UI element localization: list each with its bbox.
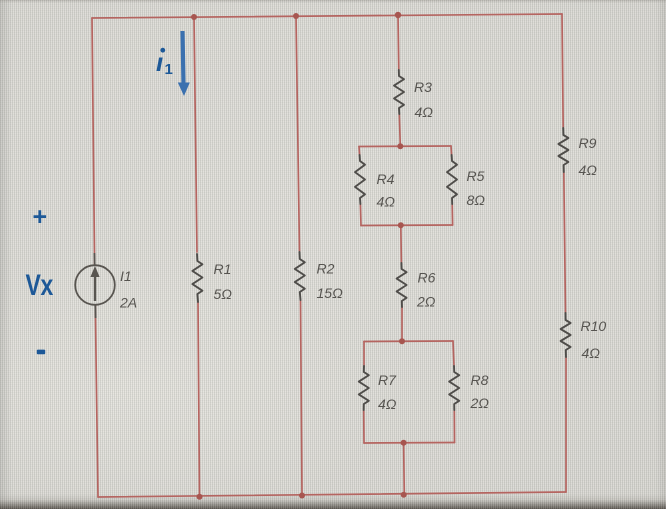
wire box R4R5 left edge lower — [359, 204, 362, 226]
node bottom middle junction — [401, 492, 407, 498]
wire box R7R8 bottom edge — [364, 442, 455, 445]
resistor R3 — [394, 70, 404, 114]
node bottom R1 junction — [197, 494, 203, 500]
resistor R4 — [355, 155, 365, 204]
resistor R2 — [295, 252, 305, 300]
node top R1 junction — [191, 14, 197, 20]
current source I1 — [75, 253, 115, 318]
resistor R1 — [192, 254, 202, 302]
wire left rail lower — [95, 305, 98, 497]
resistor R9 — [558, 128, 568, 172]
wire box R4R5 right edge lower — [451, 204, 453, 225]
node box R7R8 bottom — [401, 440, 407, 446]
wire box R7R8 left edge upper — [363, 342, 365, 367]
wire right rail middle — [564, 172, 566, 313]
resistor R10 — [561, 313, 571, 357]
wire R6 to box R7R8 — [401, 307, 403, 341]
resistor R7 — [359, 366, 369, 410]
wire right rail lower — [565, 357, 567, 492]
arrow i1 — [178, 31, 190, 96]
node top middle junction — [395, 12, 401, 18]
node bottom R2 junction — [299, 493, 305, 499]
wire top rail — [92, 14, 562, 18]
wire R2 branch lower — [301, 300, 303, 496]
wire box R7R8 left edge lower — [363, 410, 365, 443]
node box R7R8 top — [399, 338, 405, 344]
wire R3 to box — [399, 114, 400, 146]
resistor R6 — [397, 263, 407, 307]
wire box R7R8 right edge upper — [453, 341, 454, 366]
wire left rail upper — [92, 18, 95, 265]
wire R1 branch upper — [194, 17, 197, 252]
photo grain overlay — [0, 0, 1, 1]
wire box R7R8 right edge lower — [453, 410, 455, 443]
wire box R4R5 left edge upper — [358, 147, 361, 156]
label minus — [37, 350, 45, 355]
wire R2 branch upper — [296, 16, 300, 251]
wire box R7R8 top edge — [364, 340, 453, 343]
wire right rail upper — [562, 14, 563, 128]
wire R1 branch lower — [198, 302, 200, 497]
wire middle branch top — [397, 15, 400, 70]
node box R4R5 bottom — [398, 222, 404, 228]
wire box bottom to R6 — [400, 225, 403, 263]
wire bottom rail — [98, 492, 566, 497]
wire box R4R5 top edge — [359, 145, 451, 148]
node top R2 junction — [293, 13, 299, 19]
resistor R8 — [449, 366, 459, 410]
resistor R5 — [447, 155, 457, 204]
node box R4R5 top — [397, 143, 403, 149]
wire box R4R5 bottom edge — [361, 224, 453, 227]
wire box R4R5 right edge upper — [450, 146, 453, 155]
wire box R7R8 to bottom rail — [403, 443, 406, 495]
